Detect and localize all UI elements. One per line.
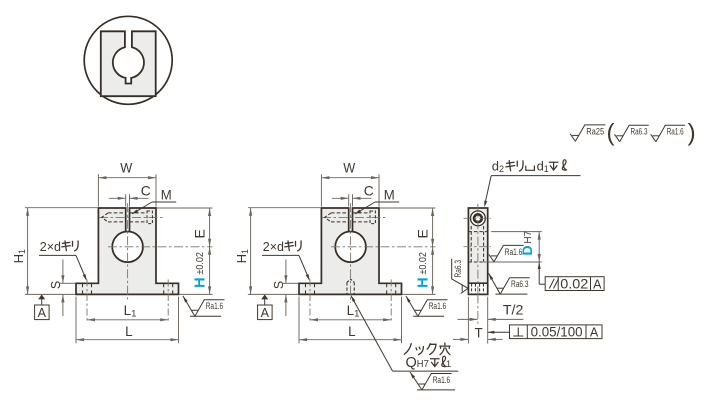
left view vertical centerline: [127, 203, 129, 299]
logo circle: [84, 16, 172, 104]
left view cross-bore hidden lines right: [130, 212, 148, 214]
svg-text:E: E: [192, 229, 208, 238]
left view horizontal centerline of bore: [108, 246, 212, 248]
middle view bore circle: [335, 232, 366, 263]
general Ra25 surface note: [570, 125, 605, 141]
svg-text:±0.02: ±0.02: [418, 252, 429, 275]
middle view L1 dimension: [310, 319, 391, 321]
left view C dimension: [125, 194, 127, 206]
svg-text:±0.02: ±0.02: [195, 252, 206, 275]
left view cross-bore hidden lines left: [108, 212, 126, 214]
svg-text:d: d: [537, 158, 544, 173]
svg-text:A: A: [590, 325, 599, 339]
svg-text:H: H: [192, 277, 208, 287]
svg-text:A: A: [261, 306, 270, 320]
middle view knock pin hole drill cone: [347, 279, 354, 282]
middle view flange hole left hidden lines: [305, 283, 307, 294]
left view L dimension: [75, 297, 77, 344]
middle view flange hole left centerline: [309, 280, 311, 323]
side view counterbore outer circle: [471, 211, 486, 226]
svg-text:Ra1.6: Ra1.6: [206, 301, 224, 311]
left view H1 dimension: [25, 207, 98, 209]
svg-text:Ra1.6: Ra1.6: [429, 301, 447, 311]
left view Ra1.6 surface symbol on base: [182, 295, 188, 302]
left view cross-bore centerline: [99, 216, 163, 218]
svg-text:Ra6.3: Ra6.3: [631, 127, 648, 137]
svg-text:E: E: [415, 229, 431, 238]
side view body: [468, 208, 487, 294]
svg-text:L1: L1: [347, 303, 360, 320]
svg-text:Ra1.6: Ra1.6: [433, 375, 451, 385]
side view bore hidden lines: [468, 231, 487, 233]
middle view datum A symbol: [261, 294, 268, 299]
svg-text:1: 1: [544, 164, 549, 174]
middle view knock pin hole hidden lines: [346, 282, 348, 294]
logo block shape: [101, 31, 156, 96]
svg-text:0.02: 0.02: [560, 276, 588, 292]
left view cross-bore drill tip: [102, 213, 108, 222]
svg-text:H7: H7: [417, 358, 429, 370]
middle view C dimension: [348, 194, 350, 206]
left view S dimension: [60, 282, 76, 284]
T/2 dimension: [467, 297, 469, 344]
middle view cross-bore centerline: [322, 216, 386, 218]
middle view vertical centerline: [350, 203, 352, 303]
svg-text:Ra1.6: Ra1.6: [667, 127, 684, 137]
middle view flange hole right hidden lines: [386, 283, 388, 294]
svg-text:Ra25: Ra25: [586, 126, 604, 136]
left view bore circle: [112, 232, 143, 263]
middle view cross-bore hidden lines left: [331, 212, 349, 214]
left view flange hole left hidden lines: [82, 283, 84, 294]
middle view S dimension: [283, 282, 299, 284]
perpendicularity leader: [488, 331, 495, 334]
svg-text:H1: H1: [11, 249, 27, 263]
middle view Ra1.6 surface symbol on base: [405, 295, 411, 302]
svg-text:A: A: [593, 278, 602, 292]
svg-text:L1: L1: [124, 303, 137, 320]
D dimension extension lines: [491, 231, 542, 233]
side view vertical centerline: [477, 204, 479, 302]
svg-text:M: M: [384, 187, 395, 203]
d2 label leader: [491, 175, 580, 177]
side Ra1.6 symbol: [489, 245, 524, 261]
svg-text:Ra6.3: Ra6.3: [453, 260, 463, 278]
side Ra6.3 left rotated symbol: [452, 259, 468, 294]
side view counterbore wall hidden lines: [470, 226, 472, 262]
left view datum A symbol: [38, 294, 45, 299]
svg-text:S: S: [49, 281, 63, 289]
side view bore horizontal centerline: [464, 246, 491, 248]
svg-text:T/2: T/2: [503, 302, 524, 317]
middle view thread relief hidden rect: [370, 211, 375, 224]
svg-text:C: C: [141, 183, 151, 199]
middle view horizontal centerline of bore: [331, 246, 435, 248]
svg-text:Q: Q: [406, 355, 417, 371]
middle view baseline extension right: [402, 293, 435, 295]
middle view W dimension: [320, 174, 322, 206]
svg-text:2×d: 2×d: [40, 240, 61, 254]
svg-text:A: A: [38, 306, 47, 320]
middle view baseline extension left: [248, 293, 299, 295]
parallelism feature control frame: [545, 277, 604, 291]
svg-text:H7: H7: [523, 230, 534, 243]
svg-text:W: W: [343, 160, 356, 176]
svg-text:S: S: [272, 281, 286, 289]
side view flange holes hidden lines: [471, 284, 473, 294]
svg-text:2: 2: [499, 164, 504, 174]
svg-text:Ra1.6: Ra1.6: [505, 247, 523, 257]
middle view flange hole right centerline: [390, 280, 392, 323]
svg-text:L: L: [348, 323, 356, 339]
svg-text:W: W: [120, 160, 133, 176]
knock hole Ra1.6 symbol: [409, 371, 415, 378]
svg-text:L: L: [125, 323, 133, 339]
middle view cross-bore hidden lines right: [353, 212, 371, 214]
side view counterbore inner circle: [474, 214, 482, 222]
Ra6.3 note symbol: [615, 125, 649, 141]
middle view body outline: [299, 208, 402, 294]
svg-text:): ): [688, 120, 696, 147]
side Ra6.3 right symbol: [487, 272, 493, 279]
svg-text:2×d: 2×d: [263, 240, 284, 254]
middle view L dimension: [298, 297, 300, 344]
Ra1.6 note symbol: [651, 125, 685, 141]
knock hole label text: [404, 344, 411, 355]
svg-text:0.05/100: 0.05/100: [531, 323, 583, 339]
left view baseline extension right: [179, 293, 212, 295]
side view flange line: [468, 282, 487, 284]
svg-text:Ra6.3: Ra6.3: [511, 279, 529, 289]
left view E dimension: [157, 207, 212, 209]
middle view E dimension: [380, 207, 435, 209]
left view flange hole right centerline: [167, 280, 169, 323]
knock hole leader: [350, 295, 356, 302]
svg-text:C: C: [364, 183, 374, 199]
middle view cross-bore drill tip: [325, 213, 331, 222]
svg-text:H: H: [415, 277, 431, 287]
perpendicularity feature control frame: [510, 325, 603, 339]
svg-text:(: (: [607, 120, 615, 147]
T dimension: [453, 338, 468, 340]
left view flange hole left centerline: [86, 280, 88, 323]
parallelism leader: [538, 262, 541, 269]
middle view H1 dimension: [248, 207, 321, 209]
left view W dimension: [97, 174, 99, 206]
side view counterbore horizontal centerline: [464, 217, 491, 219]
svg-text:T: T: [475, 325, 483, 340]
middle view H dimension with tolerance: [432, 247, 434, 295]
svg-text:d: d: [492, 158, 499, 173]
left view H dimension with tolerance: [209, 247, 211, 295]
svg-text:M: M: [161, 187, 172, 203]
left view flange hole right hidden lines: [163, 283, 165, 294]
left view L1 dimension: [87, 319, 168, 321]
left view body outline: [76, 208, 179, 294]
left view thread relief hidden rect: [147, 211, 152, 224]
svg-text:1: 1: [446, 359, 451, 370]
left view baseline extension left: [25, 293, 76, 295]
svg-text:H1: H1: [234, 249, 250, 263]
D dimension: [538, 232, 540, 262]
